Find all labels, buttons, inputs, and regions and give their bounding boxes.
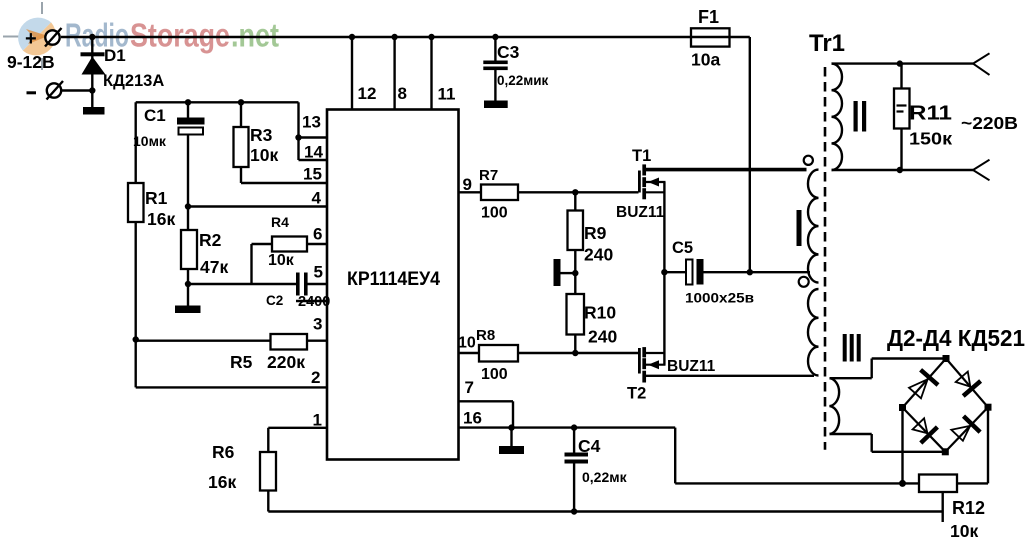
svg-text:R11: R11 <box>909 103 952 125</box>
svg-text:10мк: 10мк <box>133 133 167 149</box>
svg-text:R7: R7 <box>479 167 498 184</box>
svg-text:13: 13 <box>302 113 321 132</box>
svg-text:C2: C2 <box>266 293 283 308</box>
svg-text:4: 4 <box>312 189 322 208</box>
svg-text:6: 6 <box>313 225 322 244</box>
svg-text:D1: D1 <box>104 46 126 65</box>
svg-text:КД213А: КД213А <box>103 72 164 90</box>
svg-text:C1: C1 <box>144 106 166 125</box>
svg-text:11: 11 <box>438 85 456 104</box>
svg-text:+: + <box>25 28 37 50</box>
svg-text:150к: 150к <box>909 129 952 149</box>
svg-text:10а: 10а <box>691 50 720 70</box>
svg-text:10к: 10к <box>950 521 978 541</box>
svg-text:10: 10 <box>458 335 476 352</box>
svg-text:10к: 10к <box>250 145 278 165</box>
svg-text:16: 16 <box>463 409 482 428</box>
svg-text:9: 9 <box>463 175 472 194</box>
svg-text:240: 240 <box>588 327 617 347</box>
svg-text:BUZ11: BUZ11 <box>616 204 665 221</box>
svg-text:5: 5 <box>314 263 323 282</box>
svg-text:BUZ11: BUZ11 <box>667 358 716 375</box>
svg-text:2: 2 <box>311 368 320 387</box>
svg-text:~220В: ~220В <box>961 113 1018 133</box>
svg-text:Storage: Storage <box>130 17 230 54</box>
svg-text:R5: R5 <box>230 352 253 372</box>
svg-text:16к: 16к <box>208 472 236 492</box>
svg-text:15: 15 <box>303 165 322 184</box>
svg-text:2400: 2400 <box>298 294 330 310</box>
svg-text:F1: F1 <box>698 7 719 27</box>
svg-text:C5: C5 <box>672 239 693 257</box>
svg-text:0,22мик: 0,22мик <box>497 73 549 88</box>
svg-text:R6: R6 <box>212 442 235 462</box>
svg-text:КР1114ЕУ4: КР1114ЕУ4 <box>347 269 440 290</box>
svg-text:T2: T2 <box>627 385 646 403</box>
svg-text:R4: R4 <box>271 214 289 230</box>
svg-text:47к: 47к <box>200 257 228 277</box>
svg-text:R3: R3 <box>250 125 273 145</box>
svg-text:1000x25в: 1000x25в <box>685 290 754 306</box>
svg-text:1: 1 <box>313 411 322 430</box>
svg-text:10к: 10к <box>268 252 295 269</box>
svg-text:R9: R9 <box>584 223 607 243</box>
svg-text:R10: R10 <box>584 303 616 323</box>
svg-text:14: 14 <box>304 143 323 162</box>
svg-text:0,22мк: 0,22мк <box>582 469 628 485</box>
svg-text:3: 3 <box>313 315 322 334</box>
svg-text:C3: C3 <box>497 42 520 62</box>
svg-text:16к: 16к <box>147 209 175 229</box>
svg-text:240: 240 <box>584 245 613 265</box>
svg-text:8: 8 <box>398 84 407 103</box>
svg-text:7: 7 <box>465 378 474 397</box>
svg-text:100: 100 <box>481 205 508 222</box>
svg-text:R1: R1 <box>145 188 168 208</box>
svg-text:12: 12 <box>358 84 377 103</box>
svg-text:Tr1: Tr1 <box>809 30 845 57</box>
svg-text:.net: .net <box>231 17 279 54</box>
svg-text:220к: 220к <box>267 352 305 372</box>
svg-text:C4: C4 <box>578 436 601 456</box>
svg-text:T1: T1 <box>632 147 651 165</box>
svg-text:9-12В: 9-12В <box>7 52 55 72</box>
svg-text:R8: R8 <box>476 327 495 344</box>
svg-text:R2: R2 <box>199 230 222 250</box>
svg-text:R12: R12 <box>952 498 985 518</box>
svg-text:Д2-Д4 КД521: Д2-Д4 КД521 <box>887 325 1025 351</box>
svg-text:100: 100 <box>481 366 508 383</box>
